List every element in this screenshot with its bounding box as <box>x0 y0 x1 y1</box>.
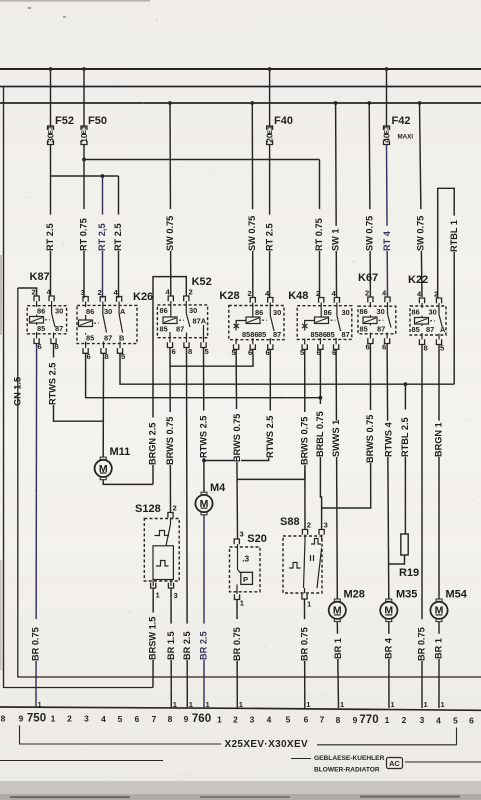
wire BR 0.75 from K22-8 <box>421 345 423 709</box>
motor M54 <box>430 589 467 622</box>
wire label RTWS 4 <box>385 421 393 457</box>
K52 pin 6 terminal <box>167 342 172 347</box>
wire SW 0.75 to K28-2 <box>251 103 254 297</box>
wire BRWS 0.75 K28-5 to S20-3 <box>236 349 237 539</box>
bus bar 30 (top supply rail) <box>0 68 481 70</box>
wire M54 ground wire BR 1 <box>438 622 440 708</box>
wire RT 2.5 branch to K26-2 <box>102 176 104 298</box>
wire label BR 4 <box>385 634 393 659</box>
wire BR 0.75 from S20-1 <box>236 600 238 709</box>
wire label BR 1.5 <box>167 624 175 660</box>
K87 pin 2 terminal <box>34 296 39 301</box>
wire BRBL 0.75 K48-6 to S88-3 <box>320 398 321 530</box>
wire F52 feed from bus 30 <box>50 69 52 126</box>
wire BRWS 0.75 K52-6 to S128-2 <box>169 348 172 513</box>
K48 pin 6 terminal <box>318 344 323 349</box>
wire label RT 0.75 <box>316 209 324 251</box>
K67 pin 4 terminal <box>385 297 390 302</box>
fuse F40 20A <box>266 126 273 145</box>
relay K28 <box>219 289 284 357</box>
S20 pin 3 terminal <box>234 539 239 544</box>
junction RT2.5 branch <box>101 174 105 178</box>
K26 pin 3 terminal <box>83 297 88 302</box>
motor M28 <box>329 589 365 622</box>
bus bar 15 (ignition rail) <box>0 102 481 104</box>
wire feed to M11 <box>102 353 104 457</box>
K67 pin 6 terminal <box>385 338 390 343</box>
K22 pin 8 terminal <box>419 339 424 344</box>
wire SWWS 1 K48-6b to M28 <box>336 349 337 599</box>
junction M4 feed <box>202 459 206 463</box>
K26 pin 4 terminal <box>117 297 122 302</box>
wire SW 0.75 to K67-2 <box>369 103 370 297</box>
wire BR 2.5 from M4 to ground strip <box>203 515 205 708</box>
K26 pin 6 terminal <box>83 348 88 353</box>
wire label RTBL 2.5 <box>402 410 410 457</box>
K28 pin 2 terminal <box>250 298 255 303</box>
wire SW 1 to K48-4 <box>335 103 338 297</box>
wire RTBL 2.5 to R19 <box>404 384 406 534</box>
fuse F42 40A <box>383 126 390 145</box>
wire RTBL 1 bridge to K22-2 <box>438 188 455 384</box>
junction SW/bus15 <box>334 101 338 105</box>
wire label BR 0.75 <box>418 619 426 661</box>
wire F40 feed from bus 30 <box>269 69 271 126</box>
junction SW/bus15 <box>250 101 254 105</box>
wire label BRWS 0.75 <box>167 412 175 465</box>
K87 pin 8 terminal <box>51 338 56 343</box>
wire RTWS 2.5 from K87-8 <box>54 344 104 422</box>
wire label RT 2.5 <box>47 215 55 251</box>
wire label SW 0.75 <box>166 209 174 251</box>
S20 pin 1 terminal <box>234 594 239 599</box>
wire label BR 1 <box>435 634 443 659</box>
wire M11 return wire <box>103 480 153 485</box>
wire F52 output RT 2.5 to K87-4 <box>50 145 52 297</box>
K48 pin 2 terminal <box>319 298 324 303</box>
section bracket X25XEV X30XEV <box>20 726 222 745</box>
K28 pin 5 terminal <box>234 344 239 349</box>
S88 pin 1 terminal <box>302 594 307 599</box>
junction BRBL <box>319 396 323 400</box>
wire label BR 0.75 <box>233 619 241 661</box>
K52 pin 2 terminal <box>184 296 189 301</box>
wire label BR 2.5 <box>183 624 191 660</box>
K67 pin 2 terminal <box>368 297 373 302</box>
wire label BR 0.75 <box>301 619 309 661</box>
fuse F52 30A <box>47 126 54 145</box>
left section continuation line <box>0 760 163 762</box>
junction SW/bus15 <box>418 101 422 105</box>
wire M28 ground wire BR 1 <box>337 622 338 708</box>
wire label GN 1.5 <box>14 370 22 406</box>
relay K67 <box>358 272 396 352</box>
wire BRSW 1.5 from S128-1 <box>152 588 154 688</box>
wire label BRBL 0.75 <box>317 404 325 457</box>
K48 pin 5 terminal <box>302 344 307 349</box>
AC code box <box>387 758 403 769</box>
K87 pin 6 terminal <box>34 338 39 343</box>
motor M35 <box>380 589 417 622</box>
wire F52 branch bus at y176 <box>51 175 119 177</box>
wire label SW 0.75 <box>417 209 425 251</box>
K26 pin 5 terminal <box>117 348 122 353</box>
fuse F50 10A <box>80 126 87 145</box>
wire label SW 1 <box>332 226 340 251</box>
wire BR 0.75 from S88-1 <box>304 599 306 708</box>
junction F52/bus30 <box>49 67 53 71</box>
wire F50 branch bus at y159.5 <box>84 159 320 161</box>
wire RT 2.5 branch to K26-4 <box>118 176 120 298</box>
wire K28-6 stub <box>252 349 254 354</box>
wire BRWS 0.75 K48-5 to S88-2 <box>304 349 306 529</box>
wire F40 output RT 2.5 to K28-4 <box>269 145 271 298</box>
wire F50 output RT 0.75 to K26-3 <box>83 145 85 299</box>
wire label BR 0.75 <box>32 619 40 661</box>
wire BRWS branch to S88 wire <box>238 471 306 480</box>
wire RT 0.75 branch to K48-2 <box>319 160 321 298</box>
relay K52 <box>157 276 211 356</box>
wire F42 feed from bus 30 <box>386 69 388 126</box>
wire K87 pin2 GN feed jog <box>18 288 37 296</box>
wire BRBL link K26-6 to K48-6 <box>86 353 321 397</box>
wire label BR 1 <box>335 634 343 659</box>
wire R19 output to M35 feed <box>389 555 405 564</box>
wire label SW 0.75 <box>249 209 257 251</box>
motor M4 <box>195 482 226 515</box>
wire F50 feed from bus 30 <box>83 69 85 126</box>
K26 pin 8 terminal <box>101 348 106 353</box>
wire label BRWS 0.75 <box>367 410 375 463</box>
S128 pin 2 terminal <box>168 513 173 518</box>
wire label BRSW 1.5 <box>149 613 157 660</box>
wire label BR 2.5 <box>200 624 208 660</box>
junction RTBL 2.5 <box>404 382 408 386</box>
K67 pin 6 terminal <box>368 338 373 343</box>
junction F50 branch <box>82 158 86 162</box>
bus bar 2 (supply rail) <box>0 86 481 88</box>
wire label RT 4 <box>383 226 391 251</box>
K52 pin 8 terminal <box>184 342 189 347</box>
K52 pin 5 terminal <box>201 342 206 347</box>
junction F42/bus30 <box>385 67 389 71</box>
junction SW/bus15 <box>168 101 172 105</box>
wire label RT 2,5 <box>99 215 107 251</box>
wire SW 0.75 to K52-4 <box>169 103 172 296</box>
wire link bus K52-6/K28-6 <box>170 354 253 366</box>
K28 pin 6 terminal <box>268 344 273 349</box>
section label Geblaese-Kuehler <box>291 758 311 760</box>
K48 pin 4 terminal <box>334 298 339 303</box>
scan speckles <box>28 7 31 9</box>
wire label BRWS 0.75 <box>233 409 241 462</box>
wire M35 ground wire BR 4 <box>388 622 390 708</box>
K48 pin 6 terminal <box>334 344 339 349</box>
wire GN 1.5 wire <box>18 288 481 677</box>
wire K48-6 stub above <box>319 349 321 397</box>
scan edge smears <box>0 0 150 2</box>
K22 pin 5 terminal <box>436 339 441 344</box>
junction SW/bus15 <box>367 101 371 105</box>
wire label RTWS 2.5 <box>200 411 208 458</box>
wire BRGN 2.5 bridge to K52-2 <box>153 277 186 485</box>
wire label SW 0.75 <box>366 209 374 251</box>
wire ground bus 687 <box>4 687 154 689</box>
wire label BRGN 1 <box>435 421 443 457</box>
wire RTWS 2.5 link bus to M4 <box>204 455 269 461</box>
scan bottom band <box>0 781 481 800</box>
thermo switch S128 <box>135 503 179 600</box>
switch unit S88 <box>280 516 328 609</box>
wire BR 0.75 from K87-6 to ground strip <box>35 344 38 709</box>
wire BRWS 0.75 K67-6 to S88-3 <box>322 344 371 509</box>
relay K26 <box>77 288 153 361</box>
wire RTWS 4 K67-6b to M35 <box>387 344 389 600</box>
S128 pin 1 terminal <box>151 583 156 588</box>
wire BR 2.5 from K52-8 <box>186 348 189 709</box>
wire label BRWS 0.75 <box>301 412 309 465</box>
K28 pin 4 terminal <box>268 298 273 303</box>
pressure switch S20 <box>230 530 267 608</box>
wire label SWWS 1 <box>333 421 341 457</box>
wire SW 0.75 to K22-4 <box>420 103 423 297</box>
motor M11 <box>95 446 131 480</box>
K52 pin 4 terminal <box>168 296 173 301</box>
K28 pin 6 terminal <box>250 344 255 349</box>
wire BR 1.5 from S128-3 <box>170 588 172 708</box>
wire RTBL link K26-5 to RTBL 1 <box>120 353 454 384</box>
wire label BRGN 2.5 <box>149 418 157 465</box>
wire label RT 2.5 <box>266 215 274 251</box>
wire BRGN 1 K22-5 to M54 <box>438 345 440 600</box>
wire label RTBL 1 <box>450 216 458 252</box>
resistor R19 <box>399 534 419 579</box>
wire left ground return <box>3 87 5 689</box>
wire label RT 0.75 <box>80 209 88 251</box>
wire RTWS 2.5 from K52-5 to M4 <box>203 348 206 493</box>
relay K48 <box>288 289 352 357</box>
K22 pin 4 terminal <box>419 298 424 303</box>
junction F40/bus30 <box>268 67 272 71</box>
wire label RTWS 2.5 <box>266 411 274 458</box>
S128 pin 3 terminal <box>168 583 173 588</box>
K26 pin 2 terminal <box>100 297 105 302</box>
junction F50/bus30 <box>82 67 86 71</box>
wire label RTWS 2.5 <box>49 358 57 405</box>
wire F42 output RT 4 to K67-4 <box>387 145 388 298</box>
relay K87 <box>18 271 67 351</box>
S88 pin 2 terminal <box>302 530 307 535</box>
ground rail / current track strip <box>0 707 481 710</box>
relay K22 <box>408 274 446 353</box>
S88 pin 3 terminal <box>319 530 324 535</box>
wire RTWS 2.5 from K28-6b <box>269 349 271 455</box>
wire label RT 2.5 <box>115 215 123 251</box>
K22 pin 2 terminal <box>436 298 441 303</box>
K87 pin 4 terminal <box>49 296 54 301</box>
